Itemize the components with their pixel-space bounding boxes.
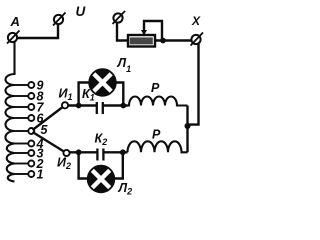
svg-text:Р: Р (152, 128, 161, 142)
tap 3 (13, 152, 28, 154)
wire rheostat to X (155, 39, 191, 41)
tap 1 (13, 173, 28, 175)
junction right of K1 (120, 103, 126, 109)
lamp L1 (89, 69, 116, 96)
wire I2 to capacitor K2 (70, 151, 97, 153)
junction coils/X-rail (185, 123, 191, 129)
tap 2 (13, 163, 28, 165)
wire rheostat wiper loop (144, 21, 162, 41)
tap 9 (13, 84, 28, 86)
node I1 (62, 102, 68, 108)
lamp L2 (88, 166, 115, 193)
wiper arrowhead (141, 30, 147, 36)
terminal U-left (plug half) (54, 15, 63, 24)
tap 4 (13, 143, 28, 145)
terminal U-right (plug half) (113, 13, 122, 22)
capacitor C1 (K1) (96, 102, 98, 114)
svg-text:Х: Х (191, 14, 201, 28)
wire coils to X rail (186, 106, 188, 153)
wire tap5 to node I1 (33, 106, 65, 130)
terminal A (8, 33, 17, 42)
tap 5 (13, 130, 28, 132)
svg-text:5: 5 (41, 123, 49, 137)
junction I2 (76, 149, 82, 155)
svg-text:U: U (76, 4, 87, 19)
junction rheostat output (160, 38, 166, 44)
svg-text:А: А (10, 14, 20, 29)
svg-text:1: 1 (37, 168, 44, 182)
wire U-right to rheostat (117, 23, 128, 41)
lamp L2 parallel branch wires (79, 152, 89, 178)
node I2 (63, 150, 69, 156)
capacitor C2 (K2) (96, 149, 98, 161)
wire K1 to coil P1 (104, 104, 128, 106)
junction I1 (76, 103, 82, 109)
wire tap5 to node I2 (33, 132, 66, 153)
junction right of K2 (120, 149, 126, 155)
coil P2 (128, 141, 188, 152)
svg-text:Р: Р (151, 81, 160, 95)
lamp L1 parallel branch wires (79, 83, 90, 106)
tap 8 (13, 95, 28, 97)
wire X rail down (188, 44, 199, 125)
autotransformer winding (5, 42, 14, 182)
wire K2 to coil P2 (104, 151, 127, 153)
tap 6 (13, 117, 28, 119)
tap 7 (13, 106, 28, 108)
resistor R (rheostat body) (128, 35, 155, 47)
wire I1 to capacitor K1 (68, 104, 96, 106)
coil P1 (123, 97, 187, 106)
terminal X (191, 35, 200, 44)
wire A terminal to U plug (17, 25, 58, 39)
